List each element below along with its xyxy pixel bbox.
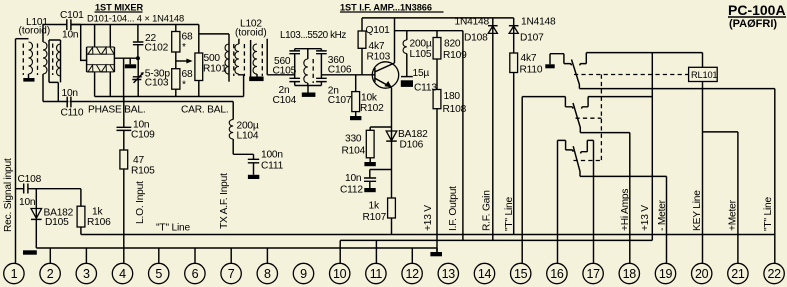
wire top bus [71,24,199,26]
svg-text:9: 9 [300,267,307,281]
wire drop from port wire to phase bus [123,58,125,101]
svg-text:+13 V: +13 V [423,205,434,231]
diode ring row 1 rails [87,47,115,54]
L102 winding 2 coil [235,44,239,74]
ground of L101 winding1 [28,74,30,78]
capacitor C102 [133,25,169,59]
potentiometer R101 500 [195,25,227,97]
terminal 20 [692,263,712,283]
terminal 13 [438,263,458,283]
svg-text:100n: 100n [261,150,283,161]
title 1ST MIXER [95,2,144,12]
svg-text:C103: C103 [145,78,169,89]
wire terminal 6 stub [194,248,196,263]
svg-text:180: 180 [444,91,461,102]
svg-text:R101: R101 [203,64,227,75]
svg-text:14: 14 [478,267,492,281]
wire mixer lower bus [95,96,244,98]
wire bus B corner to terminal 10 [339,240,341,263]
wire W3 contact2 pole to terminal 18 [580,133,630,263]
svg-text:"T" Line: "T" Line [504,197,515,231]
wire IF output drop [462,31,464,241]
svg-text:1N4148: 1N4148 [521,17,556,28]
wire terminal 3 stub [85,248,87,263]
capacitor C112 10n [340,170,392,196]
wire ring left rail [86,47,88,72]
terminal 8 [257,263,277,283]
svg-text:PC-100A: PC-100A [728,2,786,18]
svg-text:+13 V: +13 V [640,205,651,231]
svg-text:820: 820 [444,39,461,50]
wire L102 secondary to filter [267,74,295,76]
arrow to R101 wiper [176,60,188,62]
svg-text:11: 11 [370,267,383,281]
transformer L102 label [235,19,267,39]
L101 core dashed line 2 [37,44,39,76]
svg-text:+Hi Amps: +Hi Amps [620,189,631,231]
svg-text:6: 6 [192,267,199,281]
wire C108 to R106 [28,189,81,207]
capacitor C110 gap mask [68,100,69,102]
terminal 14 [474,263,494,283]
wire W1 end to terminal 22 [774,89,776,263]
wire R101b bottom [175,89,177,96]
svg-text:I.F. Output: I.F. Output [448,186,459,231]
wire ring bottom drops [95,72,111,97]
wire L101 winding3 bottom stub [57,82,59,101]
terminal 17 [583,263,603,283]
wire bus B [340,239,652,241]
wire +13V riser [651,53,653,241]
diode D105 BA182 [31,189,74,248]
svg-text:C113: C113 [414,83,437,94]
wire contact2 NC to terminal 15 [521,97,523,263]
terminal 21 [728,263,748,283]
svg-text:15µ: 15µ [413,68,430,79]
trimmer capacitor C103 [132,58,170,96]
diode ring row 2 rails [87,65,115,72]
diode D101 [88,47,101,54]
terminal 6 [185,263,205,283]
resistor R101b 68 [172,69,193,91]
svg-text:10n: 10n [345,173,361,184]
wire filter top rail [295,48,322,50]
relay contact 1 NO fixed [580,53,586,66]
svg-text:10n: 10n [62,30,78,41]
svg-text:R106: R106 [87,217,111,228]
svg-text:C109: C109 [131,130,155,141]
diode D104 [101,65,114,72]
wire RL101 to terminal 20 KEY line [702,82,704,264]
svg-text:7: 7 [228,267,235,281]
svg-text:47: 47 [133,155,144,166]
svg-text:C111: C111 [261,161,284,172]
wire terminal 11 riser [375,240,377,263]
wire contact2 NO to +13V line [588,96,652,98]
relay contact 2 arm [573,103,580,133]
L101 winding 2 coil [43,42,47,74]
svg-text:16: 16 [550,267,564,281]
resistor R104 330 [342,127,392,166]
svg-text:D106: D106 [400,140,424,151]
wire contact3 NC to terminal 16 [557,140,559,263]
svg-text:D101-104... 4 × 1N4148: D101-104... 4 × 1N4148 [87,12,184,23]
terminal 2 [40,263,60,283]
wire W2 +13V to NO and RL101 [586,52,702,54]
title 1ST I.F. AMP...1N3866 [340,2,444,12]
relay linkage dashed to RL101 [574,74,689,76]
wire ring right rail [113,47,115,72]
terminal 15 [511,263,531,283]
svg-text:20: 20 [695,267,709,281]
svg-text:R110: R110 [520,65,543,76]
wire R106 bottom to T-line [80,227,82,235]
wire terminal 5 stub [158,248,160,263]
node junction dot at C102 bottom [136,56,140,60]
diode D107 1N4148 [509,17,556,54]
wire L102 winding2 bottom to mixer bus [239,74,244,97]
relay linkage dashed vertical [600,75,602,161]
L101 winding 3 coil [57,44,61,76]
wire C101 right to bus and down to ring left port [71,25,87,61]
svg-text:+Meter: +Meter [728,199,739,231]
svg-text:TX A.F. Input: TX A.F. Input [219,173,230,229]
diode D106 BA182 [386,129,428,151]
wire RL101 top [702,53,704,68]
svg-text:- Meter: - Meter [657,199,668,231]
diode D103 [88,65,101,72]
wire filter bottom rail [295,85,322,87]
L101 core dashed line 3 [52,44,54,76]
svg-text:C110: C110 [61,108,84,119]
wire L102 secondary coil bottom [256,74,258,77]
terminal 12 [402,263,422,283]
svg-text:BA182: BA182 [398,129,428,140]
terminal 5 [149,263,169,283]
ground stub at C102 node [129,58,131,64]
svg-text:10n: 10n [62,88,78,99]
capacitor C108 [18,174,42,208]
wire L101 winding2 top to C101 [43,25,67,43]
relay contact 3 NC fixed [558,140,574,151]
resistor R106 [77,206,111,228]
wire terminal-1 riser [15,39,17,263]
svg-text:*: * [182,42,186,53]
svg-text:Rec. Signal input: Rec. Signal input [3,158,14,232]
svg-text:21: 21 [731,267,745,281]
svg-text:68: 68 [182,69,193,80]
capacitor C101 [60,10,84,41]
terminal 3 [76,263,96,283]
svg-text:5: 5 [155,267,162,281]
wire filter to base [321,74,375,76]
capacitor C107 2n [316,78,352,106]
svg-text:CAR. BAL.: CAR. BAL. [181,105,228,116]
relay coil RL101 [689,67,718,81]
terminal 10 [330,263,350,283]
svg-text:10: 10 [333,267,347,281]
wire amp top rail [362,17,514,19]
wire L104 to C111 [233,153,253,155]
ground bar left on bus C [23,250,37,254]
svg-text:R102: R102 [360,103,384,114]
resistor R109 820 [433,31,467,90]
terminal 11 [366,263,386,283]
L102 winding 1 coil [225,44,229,74]
wire ground bus C [36,248,437,252]
L102 secondary left rail [250,40,252,77]
wire bus drop to ring right top [109,25,111,48]
resistor R110 4k7 [510,53,543,235]
svg-text:L.O. Input: L.O. Input [135,181,146,224]
svg-text:17: 17 [586,267,600,281]
svg-text:(toroid): (toroid) [19,26,51,37]
L102 core dashed line 1 [233,44,235,76]
wire contact3 NO to terminal 17 [593,140,595,263]
svg-text:4k7: 4k7 [369,41,385,52]
svg-text:C106: C106 [328,65,352,76]
svg-text:10n: 10n [19,197,35,208]
inductor L105 200u [403,31,432,77]
wire ring right port to C102 node [114,57,137,59]
relay contact 1 NC fixed [550,54,571,66]
svg-text:22: 22 [767,267,781,281]
L101 winding 3 link rails [49,40,61,82]
capacitor C109 [117,97,156,151]
wire terminal 7 stub [230,248,232,263]
svg-text:2: 2 [47,267,54,281]
L102 secondary right rail [266,39,268,75]
emitter chain wire [391,129,393,198]
svg-text:D108: D108 [464,33,488,44]
wire phase bal bus [43,101,233,103]
wire T line bus A [81,234,775,236]
ground of filter [307,86,309,93]
terminal 1 [4,263,24,283]
svg-text:1ST I.F. AMP...1N3866: 1ST I.F. AMP...1N3866 [340,2,432,12]
L103 core dashed line [312,59,314,83]
relay contact 3 NO fixed [581,140,594,153]
svg-text:10k: 10k [361,93,378,104]
capacitor C111 100n [248,150,284,180]
wire between 68 resistors [175,52,177,69]
svg-text:1N4148: 1N4148 [455,17,490,28]
ground at relay contact1 NC [545,54,554,69]
svg-text:*: * [182,80,186,91]
diode D102 [101,47,114,54]
ground bar right at bus C end [430,252,442,256]
wire terminal 12 riser [411,248,413,263]
svg-text:1: 1 [11,267,18,281]
capacitor C110 [61,88,84,119]
svg-text:KEY Line: KEY Line [692,190,703,231]
wire L101 winding2 bottom lead [42,74,44,102]
wire L101 winding1 top lead [16,38,29,40]
ground bar of L102 secondary [249,77,263,82]
svg-text:18: 18 [623,267,637,281]
svg-text:RL101: RL101 [691,70,717,80]
wire R105 to terminal 4 [123,169,125,263]
relay contact 2 NO fixed [582,97,588,109]
svg-text:C104: C104 [273,95,297,106]
capacitor C105 560 [273,49,301,79]
svg-text:200µ: 200µ [410,39,432,50]
svg-text:68: 68 [182,32,193,43]
svg-text:PHASE BAL.: PHASE BAL. [88,105,145,116]
svg-text:3: 3 [83,267,90,281]
terminal 4 [112,263,132,283]
L102 winding1 rail [228,34,230,82]
relay contact 2 NC fixed [522,97,573,109]
transistor Q101 [372,18,398,129]
svg-text:C112: C112 [340,185,363,196]
terminal 19 [655,263,675,283]
svg-text:"T" Line: "T" Line [763,197,774,231]
terminal 9 [293,263,313,283]
resistor R105 47 [120,150,155,177]
svg-text:L105: L105 [410,49,432,60]
wire into C108 [16,188,24,190]
svg-text:500: 500 [204,53,221,64]
resistor R107 1k [363,198,396,235]
resistor R102 10k [350,75,384,120]
resistor R101a 68 [172,25,193,54]
transformer L101 label [19,17,51,37]
capacitor C104 2n [273,78,301,106]
wire L102 winding2 top [238,39,240,44]
wire W4 contact3 pole to terminal 19 [580,176,667,263]
svg-text:R105: R105 [131,166,155,177]
diode D108 1N4148 [455,17,498,241]
resistor R103 4k7 [358,18,390,75]
wire +Meter tap to terminal 21 [703,132,738,263]
svg-text:330: 330 [345,134,362,145]
terminal 22 [764,263,784,283]
title PC-100A [728,2,786,30]
terminal 18 [619,263,639,283]
svg-text:C101: C101 [60,10,84,21]
svg-text:R104: R104 [342,146,366,157]
resistor R108 180 [433,90,466,253]
capacitor C106 360 [316,49,352,79]
wire W1 contact1 pole line [579,88,774,90]
svg-text:1k: 1k [369,201,380,212]
capacitor C113 15u [401,68,438,94]
svg-text:R107: R107 [363,212,387,223]
inductor L104 200u [229,102,259,155]
L101 winding 1 coil [29,42,33,74]
relay contact 3 arm [573,146,580,176]
svg-text:D105: D105 [45,217,69,228]
inductor L103 [304,49,308,86]
svg-text:(PAØFRI): (PAØFRI) [729,18,777,30]
svg-text:D107: D107 [520,33,544,44]
svg-text:4k7: 4k7 [521,53,537,64]
relay linkage dashed contact3 [574,160,602,162]
relay contact 1 arm [572,60,580,89]
svg-text:4: 4 [119,267,126,281]
svg-text:C108: C108 [18,174,42,185]
wire collector network top [395,30,463,32]
svg-text:R.F. Gain: R.F. Gain [482,190,493,231]
svg-text:L104: L104 [237,131,259,142]
relay linkage dashed contact2 [576,117,602,119]
svg-text:L103...5520 kHz: L103...5520 kHz [280,30,346,41]
L101 core dashed line 1 [22,44,24,76]
svg-text:C107: C107 [328,95,352,106]
svg-text:12: 12 [405,267,419,281]
svg-text:1k: 1k [92,207,103,218]
svg-text:"T" Line: "T" Line [156,223,190,234]
wire terminal 8 stub [266,248,268,263]
svg-text:(toroid): (toroid) [235,28,267,39]
terminal 7 [221,263,241,283]
svg-text:C105: C105 [273,66,297,77]
wire bus to L102 primary [199,33,229,35]
svg-text:R103: R103 [367,52,391,63]
svg-text:19: 19 [659,267,673,281]
svg-text:Q101: Q101 [366,25,391,36]
terminal 16 [547,263,567,283]
svg-text:8: 8 [264,267,271,281]
svg-text:C102: C102 [145,43,169,54]
svg-text:13: 13 [442,267,456,281]
L102 core dashed line 2 [243,44,245,76]
wire terminal 2 stub [49,248,51,263]
wire bus drop to ring left top [94,25,96,48]
L102 secondary coil [253,44,257,74]
L102 core dashed line 3 [261,44,263,76]
svg-text:15: 15 [514,267,528,281]
svg-text:1ST MIXER: 1ST MIXER [95,2,143,12]
